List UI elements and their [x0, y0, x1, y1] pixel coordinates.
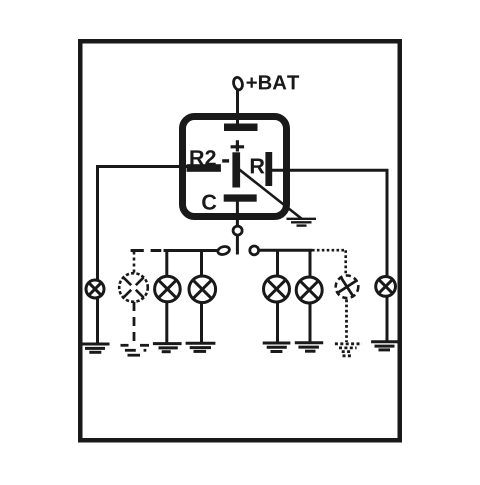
ground G8	[371, 342, 399, 350]
outer frame	[80, 41, 400, 440]
label R2	[190, 150, 215, 165]
label C	[202, 195, 216, 210]
lamp L6	[296, 277, 322, 303]
ground G3	[153, 344, 182, 352]
dotted riser lamp L7 (lower)	[345, 300, 348, 343]
lamp L3	[155, 276, 181, 302]
right bus dotted	[312, 249, 346, 252]
label +BAT	[247, 75, 300, 89]
dashed riser lamp L2 (upper)	[133, 252, 136, 273]
relay body (rounded box)	[183, 117, 287, 217]
riser lamp L5	[276, 250, 279, 342]
ground G4	[186, 343, 216, 351]
switch center pin wire	[236, 235, 239, 254]
riser lamp L3	[165, 251, 168, 343]
left bus dashed segments	[131, 249, 162, 252]
lamp L1	[86, 280, 104, 298]
polarity plus sign	[231, 140, 245, 151]
label R	[251, 159, 265, 174]
relay terminal bar C (bottom)	[224, 194, 257, 201]
lamp L2 (dashed)	[119, 273, 148, 302]
dashed wire lamp L2 (lower)	[133, 302, 136, 341]
relay terminal bar R (right)	[265, 152, 272, 186]
lamp L8	[376, 277, 396, 297]
lamp L4	[189, 276, 216, 303]
ground G5	[263, 343, 291, 352]
relay terminal bar R2 (left)	[187, 164, 221, 172]
right wire from R to lamp L8	[271, 170, 387, 342]
dotted riser lamp L7 (upper)	[344, 250, 347, 274]
riser lamp L6	[309, 250, 312, 342]
left wire from R2 around to lamp L1	[98, 167, 191, 344]
wire from +BAT to relay	[236, 90, 239, 124]
polarity minus dash	[222, 159, 229, 162]
relay terminal bar B+ (top)	[224, 124, 258, 132]
right bus solid	[259, 249, 312, 252]
switch right contact (circle terminal)	[250, 246, 259, 255]
ground G6	[295, 343, 323, 351]
ground G2 (dashed)	[121, 345, 150, 355]
switch left contact (oval terminal)	[217, 245, 230, 255]
terminal +BAT	[232, 76, 243, 90]
wire C terminal down	[236, 202, 239, 227]
common contact bar	[232, 152, 240, 187]
riser lamp L4	[200, 251, 203, 343]
ground G7 (dotted)	[335, 344, 362, 356]
lamp L5	[264, 276, 290, 302]
ground (relay armature)	[287, 219, 317, 226]
ground G1	[81, 344, 110, 352]
left bus solid	[164, 249, 219, 252]
terminal circle below relay	[233, 226, 242, 235]
lamp L7 (dashed)	[336, 276, 359, 299]
armature diagonal to ground	[236, 167, 302, 219]
